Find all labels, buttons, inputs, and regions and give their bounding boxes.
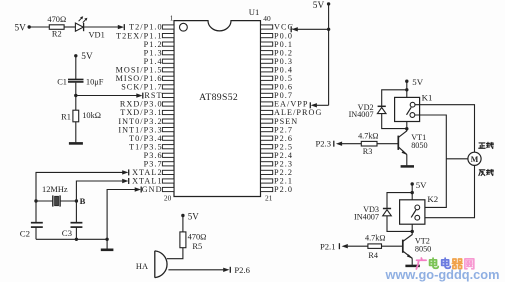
svg-text:P2.0: P2.0	[274, 185, 293, 194]
svg-text:5V: 5V	[313, 1, 325, 11]
svg-text:IN4007: IN4007	[349, 110, 374, 119]
svg-text:470Ω: 470Ω	[188, 233, 207, 242]
capacitor C3	[62, 201, 83, 239]
label U1	[249, 7, 260, 17]
svg-text:40: 40	[263, 14, 271, 23]
wire with junction to RST	[74, 83, 143, 111]
svg-text:P2.3: P2.3	[315, 139, 331, 149]
LED VD1	[75, 16, 104, 39]
label pin 40	[263, 14, 271, 23]
wire VD3 to collector	[387, 216, 412, 232]
wire ground rail	[36, 238, 109, 241]
ic right pin labels	[274, 23, 322, 195]
svg-text:20: 20	[164, 194, 172, 203]
svg-text:www.go-gddq.com: www.go-gddq.com	[385, 267, 500, 282]
wire R3 to base	[377, 143, 398, 145]
ground (VT1 emitter)	[401, 165, 414, 168]
wire P2.6	[168, 267, 230, 273]
wire motor bottom to K2 common	[420, 165, 475, 217]
svg-text:8050: 8050	[415, 244, 431, 253]
svg-text:P2.1: P2.1	[320, 242, 336, 252]
svg-text:R4: R4	[368, 251, 378, 260]
svg-text:10kΩ: 10kΩ	[82, 111, 101, 120]
net 5V (K2)	[411, 180, 428, 190]
svg-text:1: 1	[170, 13, 174, 22]
net P2.1	[320, 242, 336, 252]
svg-text:470Ω: 470Ω	[47, 15, 66, 24]
svg-text:5V: 5V	[188, 212, 200, 222]
ic left pin labels	[116, 23, 163, 195]
svg-text:4.7kΩ: 4.7kΩ	[365, 234, 385, 243]
resistor R1 10kohm	[61, 110, 101, 122]
svg-text:HA: HA	[136, 262, 148, 271]
ground (VT2 emitter)	[405, 265, 419, 268]
relay K2	[400, 194, 439, 224]
wire to VD3	[387, 193, 412, 209]
svg-text:AT89S52: AT89S52	[199, 92, 238, 103]
wire VD2 to collector	[382, 114, 407, 129]
wire	[75, 122, 77, 143]
label pin 20	[164, 194, 172, 203]
crystal B 12MHz	[34, 185, 85, 206]
net 5V (above C1)	[74, 52, 93, 62]
svg-text:GND: GND	[142, 185, 163, 194]
svg-text:R5: R5	[192, 242, 202, 251]
wire branch to motor left	[446, 158, 468, 160]
wire P2.1 to R4	[339, 243, 368, 249]
svg-text:K2: K2	[427, 194, 438, 204]
label pin 1	[170, 13, 174, 22]
svg-text:C3: C3	[62, 228, 73, 238]
watermark url	[385, 267, 500, 282]
svg-text:R3: R3	[363, 147, 373, 156]
diode VD3 IN4007	[354, 205, 391, 221]
resistor R2 470ohm	[47, 15, 66, 39]
resistor R3 4.7kohm	[358, 131, 378, 156]
buzzer HA	[136, 251, 167, 278]
label pin 21	[265, 194, 273, 203]
svg-text:VD1: VD1	[89, 31, 105, 40]
wire K2 coil to VT2 collector	[411, 224, 414, 235]
svg-text:21: 21	[265, 194, 273, 203]
wire GND pin	[107, 187, 141, 240]
svg-text:8050: 8050	[411, 141, 427, 150]
diode VD2 IN4007	[349, 103, 386, 119]
net 5V (top right)	[313, 1, 331, 11]
relay K1	[395, 93, 433, 122]
ic U1 AT89S52 body	[174, 21, 261, 197]
wire XTAL2	[36, 169, 129, 201]
wire K1 NO contact to motor top	[415, 105, 475, 153]
capacitor C2	[20, 201, 43, 239]
svg-text:U1: U1	[249, 7, 260, 17]
wire R4 to base	[382, 245, 403, 247]
net 5V (buzzer)	[181, 212, 199, 222]
wire P2.3 to R3	[334, 141, 362, 147]
svg-text:R1: R1	[61, 113, 71, 122]
svg-text:12MHz: 12MHz	[42, 185, 68, 194]
capacitor C1 10uF	[57, 77, 104, 86]
svg-text:10μF: 10μF	[86, 78, 104, 87]
svg-text:C2: C2	[20, 229, 30, 239]
wire	[182, 216, 184, 232]
svg-text:R2: R2	[52, 30, 62, 39]
svg-text:4.7kΩ: 4.7kΩ	[358, 131, 378, 140]
svg-text:M: M	[471, 155, 479, 164]
label forward (zheng zhuan)	[479, 142, 494, 148]
net P2.6	[234, 265, 250, 275]
label reverse (fan zhuan)	[479, 169, 494, 175]
transistor VT1 8050	[398, 131, 427, 166]
net 5V (K1)	[405, 77, 424, 87]
svg-text:5V: 5V	[412, 77, 423, 87]
net 5V (top left)	[15, 23, 31, 33]
ic pin stubs (40)	[162, 25, 272, 192]
wire 5V to K2 coil	[411, 184, 414, 200]
wire to VD2	[382, 90, 407, 106]
svg-text:K1: K1	[422, 93, 433, 103]
wire to pin T2/P1.0	[84, 24, 125, 30]
wire	[29, 26, 49, 28]
svg-text:5V: 5V	[416, 180, 427, 190]
transistor VT2 8050	[403, 235, 431, 265]
wire	[75, 56, 77, 79]
ground (below R1)	[69, 142, 83, 145]
svg-text:5V: 5V	[15, 23, 27, 33]
wire K1 common to K2 NO contact	[415, 115, 447, 207]
wire	[64, 26, 75, 28]
pin-1 marker circle	[180, 23, 188, 31]
wire XTAL1	[76, 178, 128, 201]
ground (crystal)	[101, 239, 114, 250]
wire R5 to buzzer	[167, 248, 183, 259]
svg-text:C1: C1	[57, 77, 67, 86]
label AT89S52	[199, 92, 238, 103]
watermark site name	[416, 258, 473, 269]
wire 5V to K1 coil	[405, 81, 408, 97]
svg-text:5V: 5V	[81, 52, 93, 62]
resistor R4 4.7kohm	[365, 234, 385, 261]
wire VCC and EA/VPP	[291, 4, 330, 108]
svg-text:IN4007: IN4007	[354, 212, 379, 221]
svg-text:B: B	[80, 196, 86, 206]
wire K1 coil to VT1 collector	[405, 122, 408, 132]
net P2.3	[315, 139, 331, 149]
svg-text:P2.6: P2.6	[234, 265, 250, 275]
resistor R5 470ohm	[180, 232, 206, 251]
motor M	[468, 152, 481, 165]
